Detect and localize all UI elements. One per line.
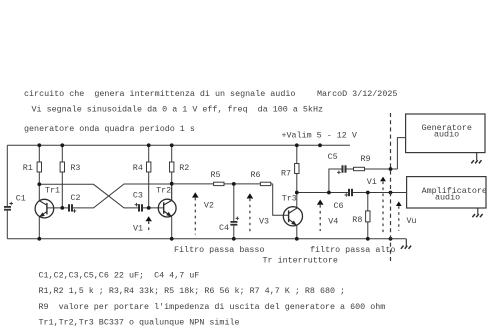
ground under generatore box xyxy=(471,153,481,164)
wire C6 to amplifier box xyxy=(353,192,407,194)
label R3 xyxy=(70,163,80,173)
svg-text:Vi: Vi xyxy=(367,177,377,187)
node Tr1 base xyxy=(60,206,64,210)
wire C3 to Tr2 base xyxy=(143,207,164,209)
capacitor C5 xyxy=(342,165,347,172)
node ground divider xyxy=(389,237,393,241)
wire C4 branch xyxy=(233,184,235,239)
capacitor C4 xyxy=(230,221,237,226)
author date xyxy=(317,89,397,99)
svg-text:Tr1: Tr1 xyxy=(45,186,60,196)
box generatore audio xyxy=(406,114,485,153)
node rail R1 xyxy=(37,143,41,147)
svg-text:R8: R8 xyxy=(352,215,362,225)
svg-text:C2: C2 xyxy=(71,193,81,203)
label Tr3 xyxy=(282,193,297,203)
plus sign of C4 xyxy=(236,217,240,221)
node R8 top xyxy=(366,191,370,195)
svg-text:C3: C3 xyxy=(133,191,143,201)
label C3 xyxy=(133,191,143,201)
svg-text:+Valim 5 - 12 V: +Valim 5 - 12 V xyxy=(282,130,357,140)
title line 1 xyxy=(24,89,295,99)
note transistors xyxy=(39,317,240,327)
wire R6 corner to Tr3 base xyxy=(273,184,289,215)
svg-text:Vu: Vu xyxy=(407,216,417,226)
wire cross-coupling C2 to Tr2 collector node xyxy=(73,184,172,208)
label C6 xyxy=(334,201,344,211)
arrow V1 xyxy=(146,216,152,233)
svg-text:C1,C2,C3,C5,C6 22 uF; C4 4,7: C1,C2,C3,C5,C6 22 uF; C4 4,7 uF xyxy=(39,271,200,281)
arrow Vu xyxy=(396,201,402,231)
arrow V4 xyxy=(317,200,324,232)
svg-text:R2: R2 xyxy=(179,163,189,173)
node rail R2 xyxy=(170,143,174,147)
label generatore box text xyxy=(422,123,472,140)
node rail R3 xyxy=(60,143,64,147)
arrow Vi xyxy=(380,177,386,235)
resistor R8 xyxy=(366,193,370,239)
label V4 xyxy=(328,217,338,227)
label Vi xyxy=(367,177,377,187)
label R2 xyxy=(179,163,189,173)
wire Tr2 emitter to ground xyxy=(171,217,173,239)
ground at right end of bottom rail xyxy=(401,239,411,249)
svg-text:R1: R1 xyxy=(23,163,33,173)
resistor R3 xyxy=(60,145,64,208)
wire C5 branch from collector node xyxy=(329,169,342,193)
wire Tr3 collector to amplifier line xyxy=(297,192,348,194)
note resistors xyxy=(39,286,346,296)
svg-text:generatore onda quadra periodo: generatore onda quadra periodo 1 s xyxy=(24,124,195,134)
label R8 xyxy=(352,215,362,225)
node Tr2 collector xyxy=(170,182,174,186)
label V3 xyxy=(259,216,269,226)
wire Tr1 base to C2 xyxy=(47,207,68,209)
wire cross-coupling Tr1 collector to C3 xyxy=(39,184,138,208)
wire left vertical branch with C1 xyxy=(6,145,8,239)
svg-text:Tr3: Tr3 xyxy=(282,193,297,203)
note capacitors xyxy=(39,271,200,281)
svg-text:Tr1,Tr2,Tr3 BC337 o qualunque: Tr1,Tr2,Tr3 BC337 o qualunque NPN simile xyxy=(39,317,240,327)
resistor R9 xyxy=(347,167,398,170)
wire R9 to generator box xyxy=(397,138,405,169)
node ground Tr2 xyxy=(170,237,174,241)
label R9 xyxy=(361,154,371,164)
svg-text:R3: R3 xyxy=(70,163,80,173)
svg-text:audio: audio xyxy=(434,130,459,140)
node C5 C6 branch xyxy=(327,191,331,195)
resistor R6 xyxy=(234,182,273,185)
label Vu xyxy=(407,216,417,226)
label R7 xyxy=(281,168,291,178)
node ground Tr3 xyxy=(295,237,299,241)
arrow V3 xyxy=(247,193,254,234)
svg-text:C4: C4 xyxy=(219,223,229,233)
node rail R4 xyxy=(147,143,151,147)
capacitor C3 xyxy=(138,204,143,211)
node Tr1 collector xyxy=(37,182,41,186)
svg-text:Filtro passa basso: Filtro passa basso xyxy=(174,245,264,255)
box amplificatore audio xyxy=(407,177,486,208)
svg-text:R6: R6 xyxy=(251,170,261,180)
label C2 xyxy=(71,193,81,203)
title line 3 xyxy=(24,124,195,134)
label R6 xyxy=(251,170,261,180)
resistor R7 xyxy=(295,145,299,208)
node Tr2 base xyxy=(147,206,151,210)
svg-text:MarcoD 3/12/2025: MarcoD 3/12/2025 xyxy=(317,89,397,99)
plus sign of C2 xyxy=(73,209,77,213)
label V2 xyxy=(204,201,214,211)
capacitor C1 xyxy=(4,206,11,211)
svg-text:R7: R7 xyxy=(281,168,291,178)
label Tr2 xyxy=(156,186,171,196)
title line 2 xyxy=(32,105,324,115)
label filtro passa alto xyxy=(310,245,395,255)
svg-text:filtro passa alto: filtro passa alto xyxy=(310,245,395,255)
svg-text:Tr interruttore: Tr interruttore xyxy=(263,256,338,266)
label C4 xyxy=(219,223,229,233)
svg-text:V2: V2 xyxy=(204,201,214,211)
label R4 xyxy=(133,163,143,173)
label R1 xyxy=(23,163,33,173)
node rail R7 xyxy=(295,143,299,147)
resistor R5 xyxy=(172,182,234,185)
node ground C4 xyxy=(232,237,236,241)
node Vu line xyxy=(389,191,393,195)
node ground R8 xyxy=(366,237,370,241)
svg-text:R9: R9 xyxy=(361,154,371,164)
plus sign of C1 xyxy=(9,202,13,206)
label V1 xyxy=(133,224,143,234)
arrow V2 xyxy=(192,192,199,234)
net +Valim label xyxy=(282,130,357,140)
wire Tr3 emitter to ground xyxy=(296,225,298,238)
resistor R2 xyxy=(170,145,174,183)
svg-text:circuito che genera intermitt: circuito che genera intermittenza di un … xyxy=(24,89,295,99)
resistor R1 xyxy=(37,145,41,201)
dashed section divider xyxy=(390,113,392,262)
label C5 xyxy=(328,152,338,162)
node rail stub xyxy=(318,143,322,147)
label Tr1 xyxy=(45,186,60,196)
svg-text:C1: C1 xyxy=(16,193,26,203)
capacitor C6 xyxy=(348,189,353,196)
plus sign of C5 xyxy=(337,171,341,175)
resistor R4 xyxy=(147,145,151,208)
node Tr3 collector xyxy=(295,191,299,195)
plus sign of C6 xyxy=(345,193,349,197)
transistor Q2 Tr2 xyxy=(158,184,176,217)
label amplificatore box text xyxy=(422,186,487,202)
node R5 C4 xyxy=(232,182,236,186)
capacitor C2 xyxy=(68,204,73,211)
node Vi line xyxy=(389,167,393,171)
plus sign of C3 xyxy=(135,203,139,207)
svg-text:R9 valore per portare l'imped: R9 valore per portare l'impedenza di usc… xyxy=(39,302,386,312)
svg-text:V4: V4 xyxy=(328,217,338,227)
wire bottom ground rail xyxy=(7,238,406,240)
junction dots xyxy=(37,143,392,240)
label filtro passa basso xyxy=(174,245,264,255)
svg-text:audio: audio xyxy=(435,192,460,202)
node ground Tr1 xyxy=(37,237,41,241)
transistor Q3 Tr3 xyxy=(283,207,302,226)
wire Tr1 emitter to ground xyxy=(38,217,40,239)
label tr interruttore xyxy=(263,256,338,266)
svg-text:R1,R2 1,5 k ; R3,R4 33k; R5 18: R1,R2 1,5 k ; R3,R4 33k; R5 18k; R6 56 k… xyxy=(39,286,346,296)
svg-text:Vi segnale sinusoidale da 0 a: Vi segnale sinusoidale da 0 a 1 V eff, f… xyxy=(32,105,324,115)
transistor Q1 Tr1 xyxy=(35,199,54,218)
svg-text:C6: C6 xyxy=(334,201,344,211)
svg-text:C5: C5 xyxy=(328,152,338,162)
svg-text:V1: V1 xyxy=(133,224,143,234)
wire top supply rail xyxy=(7,144,350,146)
svg-text:V3: V3 xyxy=(259,216,269,226)
svg-text:Tr2: Tr2 xyxy=(156,186,171,196)
note R9 xyxy=(39,302,386,312)
ground under amplificatore box xyxy=(472,208,482,217)
label C1 xyxy=(16,193,26,203)
svg-text:R4: R4 xyxy=(133,163,143,173)
svg-text:R5: R5 xyxy=(211,170,221,180)
label R5 xyxy=(211,170,221,180)
